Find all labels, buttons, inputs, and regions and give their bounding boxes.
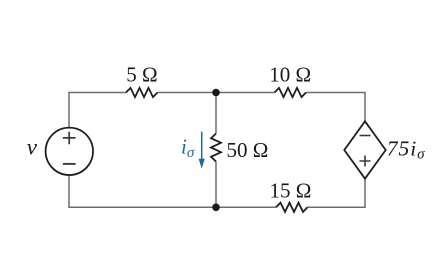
resistor R2 10 ohm: [275, 88, 307, 97]
svg-text:50 Ω: 50 Ω: [227, 138, 269, 162]
dependent source plus sign: [360, 156, 371, 167]
wire top-right segment: [306, 93, 365, 122]
dependent source minus sign: [360, 135, 371, 137]
wire bottom-right segment: [308, 179, 366, 208]
svg-text:10 Ω: 10 Ω: [269, 62, 311, 86]
voltage source plus sign: [63, 132, 76, 144]
resistor R1 5 ohm: [126, 88, 158, 97]
voltage source v: [46, 128, 93, 175]
voltage source minus sign: [63, 163, 76, 165]
svg-text:5 Ω: 5 Ω: [126, 62, 157, 86]
node B bottom junction: [212, 204, 220, 212]
current arrow i-sigma: [199, 132, 205, 169]
wire middle vertical lower: [215, 162, 217, 208]
node A top junction: [212, 89, 220, 97]
svg-text:v: v: [27, 135, 38, 160]
wire top-middle segment: [158, 92, 275, 94]
wire middle vertical upper: [215, 93, 217, 134]
svg-text:15 Ω: 15 Ω: [269, 178, 311, 202]
wire top-left segment: [69, 93, 126, 128]
resistor R4 15 ohm: [276, 203, 308, 212]
dependent source 75 i-sigma: [344, 121, 385, 178]
wire left-bottom segment: [69, 175, 276, 208]
resistor R3 50 ohm: [211, 134, 221, 162]
